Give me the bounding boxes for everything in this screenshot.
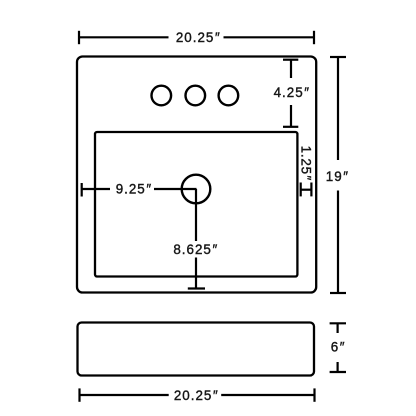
- svg-text:6″: 6″: [331, 340, 345, 355]
- svg-text:9.25″: 9.25″: [116, 182, 152, 197]
- dimension 20.25 bottom: [80, 388, 315, 403]
- svg-text:1.25″: 1.25″: [299, 146, 314, 181]
- dimension 6 side height: [330, 323, 346, 372]
- dimension 20.25 top: [79, 30, 314, 45]
- drain hole circle: [182, 175, 211, 204]
- basin inner rectangle: [95, 132, 297, 277]
- faucet hole center: [186, 86, 206, 106]
- svg-text:20.25″: 20.25″: [176, 30, 221, 45]
- svg-text:8.625″: 8.625″: [173, 242, 218, 257]
- dimension 1.25 rim lip: [299, 146, 314, 197]
- dimension 4.25 faucet offset: [274, 60, 310, 127]
- sink outer rim (top view): [77, 57, 316, 293]
- svg-text:20.25″: 20.25″: [174, 388, 219, 403]
- svg-text:19″: 19″: [326, 169, 349, 184]
- faucet hole right: [219, 86, 239, 106]
- dimension 9.25 drain from left: [82, 182, 197, 197]
- faucet hole left: [152, 86, 172, 106]
- dimension 8.625 drain from bottom: [173, 189, 218, 289]
- dimension 19 right: [326, 57, 349, 293]
- sink side view outline: [78, 323, 315, 376]
- svg-text:4.25″: 4.25″: [274, 85, 310, 100]
